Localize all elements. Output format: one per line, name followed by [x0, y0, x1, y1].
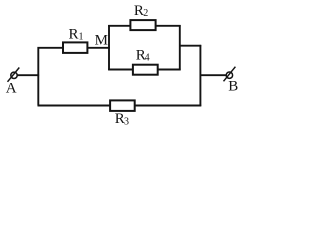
wire R2 to right side of loop: [156, 25, 181, 27]
svg-text:M: M: [95, 33, 108, 49]
wire bottom branch left: [38, 105, 111, 107]
wire bottom branch right: [134, 105, 201, 107]
svg-text:3: 3: [124, 116, 129, 127]
svg-text:2: 2: [143, 8, 148, 19]
resistor R3: [110, 100, 135, 111]
wire right side of parallel loop: [179, 25, 181, 70]
wire M to R4: [108, 69, 133, 71]
terminal A: [8, 68, 20, 82]
svg-text:R: R: [69, 27, 79, 43]
wire M vertical (left side of parallel loop): [108, 25, 110, 70]
svg-text:A: A: [6, 81, 17, 97]
resistor R2: [130, 20, 155, 30]
resistor R4: [133, 65, 158, 75]
wire M to R2: [108, 25, 131, 27]
wire right rail to B: [200, 74, 227, 76]
wire A to left rail: [17, 74, 39, 76]
terminal B: [224, 67, 236, 82]
svg-text:4: 4: [145, 53, 150, 64]
svg-text:B: B: [228, 79, 238, 95]
wire loop to right rail: [179, 45, 201, 47]
resistor R1: [63, 42, 87, 53]
wire right rail: [199, 45, 201, 106]
svg-text:1: 1: [79, 31, 84, 42]
wire left rail: [38, 48, 63, 106]
wire R1 to node M: [87, 47, 109, 49]
wire R4 to right side of loop: [158, 69, 181, 71]
